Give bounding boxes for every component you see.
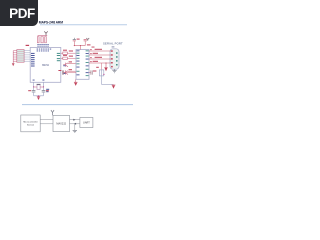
wire C7 to ground — [101, 76, 103, 85]
block microcontroller — [21, 115, 40, 132]
microcontroller U1 89C52 — [30, 48, 61, 83]
crystal ground junction — [38, 95, 39, 96]
wire MAX232 to UART (1) — [70, 119, 80, 121]
RS232 wires — [89, 51, 111, 63]
capacitor C1 — [32, 91, 36, 92]
resistor R1 — [63, 52, 68, 54]
PDF badge — [0, 0, 38, 26]
pin number labels above U1 — [37, 44, 48, 47]
RS232 net labels — [93, 49, 102, 62]
C7 label — [96, 67, 99, 68]
svg-text:MAPS-2/48 ARM: MAPS-2/48 ARM — [39, 20, 63, 24]
wire U1 to U2 row1 — [61, 52, 76, 54]
svg-text:Section: Section — [27, 124, 35, 127]
Vcc symbol above MAX232 — [51, 110, 54, 115]
U1 left pin labels — [31, 53, 35, 67]
CN1 left pins — [111, 50, 113, 67]
connector CN1 label — [112, 46, 115, 47]
CN1 right pins — [116, 52, 118, 65]
C2 label — [46, 90, 49, 91]
capacitor C2 — [42, 91, 46, 92]
crystal Y1 — [37, 85, 40, 90]
Vcc wire over U2 — [74, 45, 85, 47]
R1 value label — [63, 50, 67, 51]
Q1 label — [69, 61, 72, 62]
svg-text:PDF: PDF — [9, 6, 35, 21]
R2 value label — [63, 55, 67, 56]
block UART — [80, 118, 93, 128]
serial driver U2 MAX232 — [76, 50, 89, 80]
Q2 net label — [63, 72, 65, 75]
U2 right pin labels — [86, 50, 89, 76]
resistor network bus wire — [38, 35, 48, 37]
wire MAX232 to UART (2) — [70, 123, 80, 125]
block MAX232 — [53, 115, 70, 131]
U2 power label — [87, 44, 91, 45]
crystal ground arrow — [37, 96, 40, 98]
wire XTAL2 — [43, 82, 45, 90]
connector J1 — [17, 50, 24, 63]
svg-text:MAX232: MAX232 — [56, 123, 66, 126]
resistor RP1c — [45, 37, 47, 43]
ground arrow left of CN1 — [105, 63, 107, 68]
Q2 label — [69, 69, 72, 70]
svg-text:SERIAL PORT: SERIAL PORT — [103, 42, 123, 46]
title rule — [40, 24, 127, 26]
resistor RP1b — [41, 37, 43, 43]
wire U2 to C6 — [89, 72, 91, 74]
RS232 pin number ticks — [90, 47, 94, 63]
ground symbol between blocks — [73, 130, 77, 132]
arrowhead left — [74, 123, 76, 125]
J1 label — [26, 45, 30, 46]
crystal net labels — [46, 89, 49, 92]
U2 ground stem — [75, 79, 77, 82]
C1 label — [28, 90, 31, 91]
svg-text:89C52: 89C52 — [42, 65, 49, 67]
C3 label — [77, 39, 80, 40]
svg-text:Microcontroller: Microcontroller — [23, 121, 38, 124]
junction node XTAL1 — [33, 86, 34, 87]
transistor Q1 — [63, 63, 68, 67]
U2 Vcc pin wire — [79, 46, 81, 50]
capacitor C5 label — [58, 70, 61, 71]
resistor R2 — [63, 57, 68, 59]
capacitor C3 — [73, 38, 76, 46]
R2 net label — [69, 56, 73, 57]
section rule — [22, 104, 133, 106]
R1 net label — [69, 51, 73, 52]
U1 bottom pin labels — [33, 79, 45, 82]
Vcc symbol above reset network — [44, 31, 47, 35]
C6 label — [93, 71, 96, 72]
svg-text:UART: UART — [83, 121, 90, 124]
wire MCU to MAX232 (2) — [40, 123, 53, 125]
wire MCU to MAX232 (1) — [40, 119, 53, 121]
arrowhead right — [73, 119, 75, 121]
resistor RP1a — [37, 37, 39, 43]
J1 pin stub wires — [13, 51, 17, 62]
transistor Q2 — [63, 70, 68, 74]
U1 top pin name labels — [37, 49, 52, 52]
wire C5 to U2 — [64, 72, 76, 74]
ground under CN1 — [112, 69, 116, 73]
wire U1 to U2 row2 — [61, 57, 76, 59]
junction dots — [74, 45, 75, 46]
capacitor C7 (electrolytic) — [101, 63, 103, 70]
DB9 connector CN1 — [110, 49, 119, 69]
C7 junction dot — [103, 74, 104, 75]
capacitor C5 — [62, 70, 64, 74]
U2 left pin labels — [77, 50, 80, 75]
wire XTAL1 — [33, 82, 35, 90]
ground under U2 — [74, 81, 78, 83]
Q1 net label — [63, 64, 65, 67]
ground arrow bottom right — [112, 84, 116, 86]
wire Q1 to U2 — [68, 62, 76, 64]
capacitor C4 — [84, 39, 87, 45]
ground stem between blocks — [74, 124, 76, 131]
J1 ground arrow — [12, 63, 15, 66]
wire Q2 to U2 — [68, 70, 76, 72]
Vcc symbol at C4 — [86, 38, 89, 41]
J1 ground bus wire — [12, 51, 14, 64]
crystal ground wires — [34, 92, 44, 97]
junction node XTAL2 — [43, 86, 44, 87]
capacitor C6 — [91, 70, 93, 74]
wires J1 to U1 — [24, 51, 30, 62]
U1 right pin labels — [57, 53, 60, 61]
